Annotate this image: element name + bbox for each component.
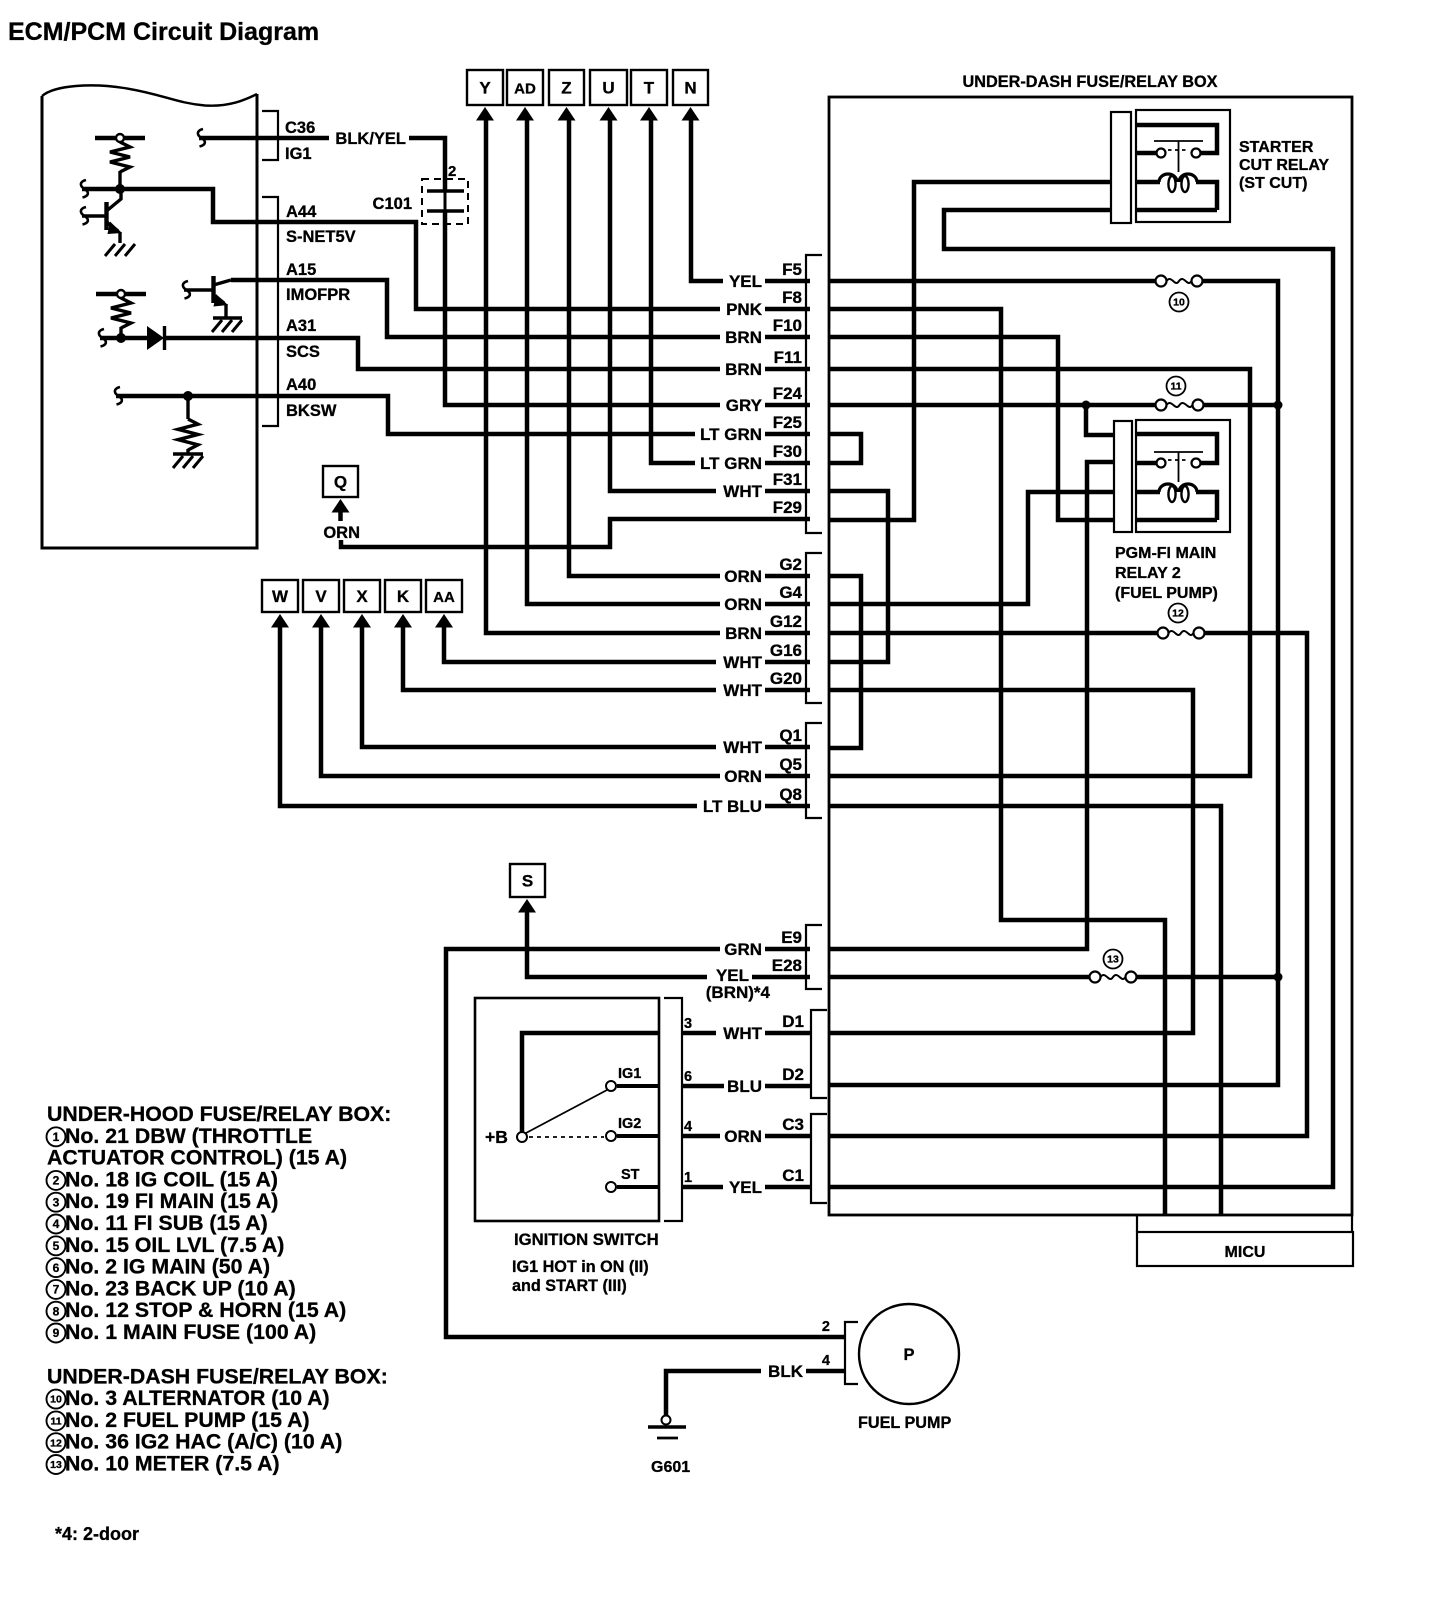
svg-text:D2: D2	[782, 1065, 804, 1084]
svg-text:GRY: GRY	[726, 396, 763, 415]
wire C36 / IG1 (BLK/YEL) to capacitor C101	[198, 129, 205, 147]
svg-text:and START (III): and START (III)	[512, 1277, 627, 1295]
list item 1	[47, 1127, 66, 1146]
svg-text:P: P	[903, 1346, 914, 1364]
under-dash fuse/relay box outline	[829, 97, 1352, 1215]
svg-text:6: 6	[53, 1261, 60, 1275]
wire ignition pin 4 (ORN) to C3	[682, 1134, 811, 1139]
svg-text:12: 12	[1172, 608, 1184, 620]
svg-text:+B: +B	[485, 1127, 508, 1147]
wire A40 / BKSW: to pin A40 then to F25 (LT GRN)	[115, 387, 122, 405]
wire X to Q1 (WHT)	[362, 625, 810, 747]
wire fuse 11 to junction	[1204, 403, 1279, 408]
svg-text:F11: F11	[774, 348, 802, 367]
connector box Y	[467, 70, 503, 105]
fuse 11	[1156, 400, 1167, 411]
svg-text:1: 1	[53, 1130, 60, 1144]
wire AA to G16 (WHT)	[444, 625, 810, 662]
list item 13	[47, 1455, 66, 1474]
junction dot F24/relay2	[1082, 401, 1091, 410]
wire E9 (GRN) to fuel pump pin 2	[446, 949, 845, 1337]
ground (under transistor Q-b)	[213, 316, 242, 319]
svg-text:FUEL PUMP: FUEL PUMP	[858, 1414, 951, 1432]
list item 10	[47, 1390, 66, 1409]
wire F11 to Q5	[829, 369, 1250, 776]
svg-text:ECM/PCM Circuit Diagram: ECM/PCM Circuit Diagram	[8, 18, 319, 46]
svg-text:10: 10	[50, 1394, 62, 1406]
svg-text:WHT: WHT	[723, 653, 762, 672]
wire colour label YEL (BRN)*4 (E28)	[707, 967, 752, 984]
arrow into AD	[516, 107, 534, 121]
wire colour label ORN (C3)	[720, 1128, 765, 1145]
switch wiper (to IG1)	[526, 1090, 607, 1133]
wire colour label LT BLU (Q8)	[697, 798, 765, 815]
fuse 13	[1090, 972, 1101, 983]
svg-text:F29: F29	[773, 498, 802, 517]
list item 4	[47, 1215, 66, 1234]
connector bracket G (G2..G20)	[806, 553, 822, 703]
wire BLK fuel pump pin 4 to G601	[666, 1371, 845, 1416]
wire colour label YEL (F5)	[723, 273, 765, 290]
svg-text:No. 15 OIL LVL (7.5 A): No. 15 OIL LVL (7.5 A)	[65, 1233, 284, 1257]
node bar with terminal circle (top pull-up)	[95, 136, 145, 141]
svg-text:(ST CUT): (ST CUT)	[1239, 175, 1307, 192]
connector bracket E (E9/E28)	[806, 925, 822, 989]
fuel pump connector bracket	[845, 1322, 858, 1384]
starter relay coil	[1159, 174, 1177, 182]
MICU box	[1136, 1216, 1138, 1232]
ignition switch +B feed wire	[522, 1033, 659, 1134]
wire colour label WHT (D1)	[716, 1025, 765, 1042]
svg-text:1: 1	[684, 1170, 692, 1186]
svg-text:LT GRN: LT GRN	[700, 425, 762, 444]
svg-text:11: 11	[50, 1416, 61, 1428]
wire G12 to fuse 12	[829, 631, 1158, 636]
svg-text:F24: F24	[773, 384, 803, 403]
svg-text:GRN: GRN	[724, 940, 762, 959]
wire N to F5 (YEL)	[691, 118, 810, 281]
svg-text:F25: F25	[773, 413, 802, 432]
PGM-FI main relay 2 box	[1136, 420, 1230, 532]
wire G4 to relay 2 pin 3	[829, 492, 1114, 604]
arrow into U	[600, 107, 618, 121]
svg-text:S-NET5V: S-NET5V	[286, 228, 356, 246]
svg-text:ACTUATOR CONTROL) (15 A): ACTUATOR CONTROL) (15 A)	[47, 1146, 347, 1170]
svg-text:BRN: BRN	[725, 624, 762, 643]
svg-text:ST: ST	[621, 1167, 640, 1183]
arrow into N	[682, 107, 700, 121]
svg-text:F8: F8	[782, 288, 802, 307]
connector box U	[590, 70, 627, 105]
svg-text:ORN: ORN	[724, 1127, 762, 1146]
wire colour label LT GRN (F25)	[695, 426, 765, 443]
svg-text:WHT: WHT	[723, 738, 762, 757]
wire colour label WHT (Q1)	[716, 739, 765, 756]
wire fuse 13 to junction	[1137, 975, 1279, 980]
svg-text:Q8: Q8	[779, 785, 802, 804]
resistor (lower, inside ECM)	[186, 396, 189, 419]
wire A31 / SCS: through diode to pin A31 then to F11 (BRN)	[99, 329, 106, 347]
svg-text:F10: F10	[773, 316, 802, 335]
svg-text:No. 11 FI SUB (15 A): No. 11 FI SUB (15 A)	[65, 1211, 268, 1235]
connector box AA	[426, 580, 462, 612]
svg-text:9: 9	[53, 1326, 60, 1340]
connector bracket C (C3/C1)	[811, 1114, 827, 1203]
svg-text:A31: A31	[286, 317, 316, 335]
wire colour label YEL (C1)	[723, 1179, 765, 1196]
svg-text:Q: Q	[334, 473, 347, 492]
ground (under transistor Q-a)	[105, 244, 115, 256]
node junction (A31 net)	[116, 333, 126, 343]
svg-text:UNDER-DASH FUSE/RELAY BOX: UNDER-DASH FUSE/RELAY BOX	[962, 73, 1217, 91]
svg-text:C3: C3	[782, 1115, 804, 1134]
list item 11	[47, 1411, 66, 1430]
starter relay armature bar	[1154, 140, 1203, 142]
wire F29 to starter cut relay pin 1	[829, 182, 1111, 520]
arrow into Q	[332, 499, 350, 513]
IG1 terminal circle	[606, 1081, 616, 1091]
wire F10 to relay 2 pin 4	[829, 337, 1114, 520]
wire Q to F29 (ORN)	[341, 519, 810, 547]
svg-text:*4: 2-door: *4: 2-door	[55, 1524, 139, 1544]
svg-text:A15: A15	[286, 261, 316, 279]
list item 7	[47, 1280, 66, 1299]
svg-text:A40: A40	[286, 376, 316, 394]
wire colour label GRY (F24)	[720, 397, 765, 414]
relay 2 internal contact circuit	[1137, 434, 1217, 463]
IG2 terminal circle	[606, 1131, 616, 1141]
svg-text:13: 13	[50, 1459, 62, 1471]
ground G601	[662, 1416, 671, 1425]
svg-text:MICU: MICU	[1225, 1244, 1266, 1261]
circled 10	[1170, 293, 1189, 312]
svg-text:No. 21 DBW (THROTTLE: No. 21 DBW (THROTTLE	[65, 1124, 312, 1148]
wire colour label ORN (G2)	[720, 568, 765, 585]
svg-text:3: 3	[53, 1195, 60, 1209]
svg-text:AA: AA	[433, 589, 455, 606]
resistor (middle, inside ECM)	[111, 298, 131, 328]
arrow into T	[640, 107, 658, 121]
wire colour label BRN (F10)	[720, 329, 765, 346]
list item 2	[47, 1171, 66, 1190]
node junction (A44 net)	[115, 184, 125, 194]
wire F24 junction to relay 2 pin 1	[1086, 405, 1114, 435]
svg-text:BLK/YEL: BLK/YEL	[335, 130, 406, 148]
wire A15 / IMOFPR: collector to pin A15 then to F10 (BRN)	[231, 280, 810, 337]
circled 11	[1167, 377, 1186, 396]
svg-text:BRN: BRN	[725, 360, 762, 379]
arrow into Z	[558, 107, 576, 121]
arrow into Y	[476, 107, 494, 121]
svg-text:WHT: WHT	[723, 482, 762, 501]
list item 3	[47, 1193, 66, 1212]
wire G2 to Q1	[829, 576, 861, 748]
wire jumper F25 to F30	[829, 434, 861, 463]
connector box Q	[323, 466, 358, 497]
ST terminal circle	[606, 1182, 616, 1192]
wire colour label PNK (F8)	[720, 301, 765, 318]
connector box S	[510, 864, 545, 897]
svg-text:3: 3	[684, 1016, 692, 1032]
wire colour label WHT (G20)	[716, 682, 765, 699]
svg-text:E28: E28	[772, 956, 802, 975]
wire ignition pin 6 (BLU) to D2	[682, 1084, 811, 1089]
svg-text:D1: D1	[782, 1012, 804, 1031]
svg-text:U: U	[602, 79, 614, 98]
svg-text:WHT: WHT	[723, 1024, 762, 1043]
wire A44 / S-NET5V: ECM internal to pin A44 then to F8 (PNK)	[81, 180, 88, 198]
wire ignition pin 3 (WHT) to D1	[682, 1031, 811, 1036]
svg-text:W: W	[272, 587, 289, 606]
svg-text:ORN: ORN	[323, 524, 360, 542]
relay 2 contact circle right	[1192, 459, 1201, 468]
wire Z to G2 (ORN)	[569, 118, 810, 576]
svg-text:6: 6	[684, 1069, 692, 1085]
wire ignition pin 1 (YEL) to C1	[682, 1185, 811, 1190]
starter cut relay connector bracket	[1111, 112, 1131, 223]
svg-text:No. 2 FUEL PUMP (15 A): No. 2 FUEL PUMP (15 A)	[65, 1408, 310, 1432]
svg-text:4: 4	[822, 1353, 830, 1369]
arrow into S	[518, 899, 536, 913]
svg-text:RELAY 2: RELAY 2	[1115, 565, 1181, 582]
starter cut relay box	[1136, 110, 1230, 222]
svg-text:YEL: YEL	[729, 1178, 762, 1197]
relay 2 coil	[1159, 484, 1177, 492]
connector box V	[303, 580, 339, 612]
list item 8	[47, 1302, 66, 1321]
svg-text:UNDER-HOOD FUSE/RELAY BOX:: UNDER-HOOD FUSE/RELAY BOX:	[47, 1102, 391, 1126]
wire E9 to relay 2 pin 2	[829, 462, 1114, 949]
wire T to F30 (LT GRN)	[651, 118, 810, 463]
svg-text:12: 12	[50, 1437, 62, 1449]
wire C101 to F24 (GRY)	[444, 191, 447, 211]
transistor Q-a (inside ECM, top)	[81, 207, 88, 225]
ignition switch connector bracket	[664, 998, 682, 1221]
relay 2 armature bar	[1154, 451, 1203, 453]
svg-text:PNK: PNK	[726, 300, 763, 319]
node bar with terminal circle (middle pull-up)	[96, 292, 146, 297]
label BLK/YEL	[329, 130, 409, 147]
arrow into V	[312, 614, 330, 628]
circled 12	[1169, 604, 1188, 623]
switch dashed wiper (to IG2)	[529, 1136, 604, 1138]
wire G20 to D1	[829, 690, 1193, 1033]
svg-text:LT BLU: LT BLU	[703, 797, 762, 816]
resistor (top, inside ECM)	[110, 142, 130, 172]
relay 2 coil legs and return	[1137, 490, 1160, 495]
svg-text:BRN: BRN	[725, 328, 762, 347]
svg-text:WHT: WHT	[723, 681, 762, 700]
svg-text:G20: G20	[770, 669, 802, 688]
svg-text:2: 2	[822, 1319, 830, 1335]
svg-text:IG1 HOT in ON (II): IG1 HOT in ON (II)	[512, 1258, 649, 1276]
connector bracket D (D1/D2)	[811, 1010, 827, 1098]
wire F24 to fuse 11	[829, 403, 1156, 408]
capacitor C101	[427, 189, 464, 193]
svg-text:AD: AD	[514, 81, 536, 98]
svg-text:UNDER-DASH FUSE/RELAY BOX:: UNDER-DASH FUSE/RELAY BOX:	[47, 1364, 388, 1388]
svg-text:SCS: SCS	[286, 343, 320, 361]
relay 2 contact circle left	[1157, 459, 1166, 468]
wire starter cut relay pin 2 to C1	[829, 210, 1333, 1187]
svg-text:BKSW: BKSW	[286, 402, 337, 420]
fuel pump motor circle	[859, 1304, 959, 1404]
svg-text:BLU: BLU	[727, 1077, 762, 1096]
svg-text:No. 18 IG COIL (15 A): No. 18 IG COIL (15 A)	[65, 1167, 278, 1191]
wire F5 to fuse 10	[829, 279, 1156, 284]
svg-text:YEL: YEL	[729, 272, 762, 291]
connector box T	[631, 70, 667, 105]
svg-text:No. 36 IG2 HAC (A/C) (10 A): No. 36 IG2 HAC (A/C) (10 A)	[65, 1430, 342, 1454]
connector box N	[673, 70, 708, 105]
starter relay contact circle right	[1192, 149, 1201, 158]
svg-text:2: 2	[53, 1174, 60, 1188]
fuse 12	[1158, 628, 1169, 639]
svg-text:ORN: ORN	[724, 567, 762, 586]
svg-text:CUT RELAY: CUT RELAY	[1239, 157, 1329, 174]
starter cut relay internal contact circuit	[1137, 125, 1217, 153]
connector bracket F (F5..F29)	[806, 255, 822, 533]
wire colour label WHT (F31)	[716, 483, 765, 500]
svg-text:8: 8	[53, 1304, 60, 1318]
svg-text:No. 12 STOP & HORN (15 A): No. 12 STOP & HORN (15 A)	[65, 1298, 346, 1322]
svg-text:V: V	[315, 587, 327, 606]
svg-text:G4: G4	[779, 583, 802, 602]
wire E28 to fuse 13	[829, 975, 1090, 980]
svg-text:2: 2	[448, 163, 456, 180]
svg-text:F31: F31	[773, 470, 802, 489]
arrow into AA	[435, 614, 453, 628]
list item 12	[47, 1433, 66, 1452]
svg-text:IG1: IG1	[618, 1066, 641, 1082]
node junction (A40 net)	[183, 391, 193, 401]
connector box AD	[507, 70, 543, 105]
fuse 10	[1156, 276, 1167, 287]
svg-text:ORN: ORN	[724, 767, 762, 786]
svg-text:C1: C1	[782, 1166, 804, 1185]
svg-text:No. 2 IG MAIN (50 A): No. 2 IG MAIN (50 A)	[65, 1255, 270, 1279]
wire colour label WHT (G16)	[716, 654, 765, 671]
wire colour label BRN (F11)	[720, 361, 765, 378]
svg-text:Q1: Q1	[779, 726, 802, 745]
svg-text:IGNITION SWITCH: IGNITION SWITCH	[514, 1230, 659, 1249]
PGM-FI main relay 2 connector bracket	[1114, 421, 1132, 532]
ignition switch box	[475, 998, 659, 1221]
+B terminal circle	[517, 1132, 527, 1142]
wire W to Q8 (LT BLU)	[280, 625, 810, 806]
wire colour label GRN (E9)	[720, 941, 765, 958]
svg-text:10: 10	[1173, 297, 1185, 309]
svg-text:T: T	[644, 79, 655, 98]
svg-text:G12: G12	[770, 612, 802, 631]
wire colour label ORN (G4)	[720, 596, 765, 613]
wire colour label BRN (G12)	[720, 625, 765, 642]
svg-text:(BRN)*4: (BRN)*4	[706, 983, 771, 1002]
wire S to E28 (YEL)	[527, 910, 810, 977]
wire AD to G4 (ORN)	[527, 118, 810, 604]
svg-text:E9: E9	[781, 928, 802, 947]
svg-text:4: 4	[53, 1217, 60, 1231]
ECM/PCM module box (wavy top)	[42, 94, 257, 548]
arrow into W	[271, 614, 289, 628]
wire G16 to F31	[829, 491, 888, 662]
svg-text:S: S	[522, 872, 533, 891]
connector box X	[344, 580, 380, 612]
svg-text:IG2: IG2	[618, 1116, 641, 1132]
connector box W	[262, 580, 298, 612]
svg-text:5: 5	[53, 1239, 60, 1253]
svg-text:N: N	[684, 79, 696, 98]
svg-text:C101: C101	[373, 195, 412, 213]
wire colour label ORN (Q5)	[720, 768, 765, 785]
connector bracket C36/IG1	[262, 111, 278, 160]
svg-text:No. 1 MAIN FUSE (100 A): No. 1 MAIN FUSE (100 A)	[65, 1320, 316, 1344]
wire V to Q5 (ORN)	[321, 625, 810, 776]
wire K to G20 (WHT)	[403, 625, 810, 690]
svg-text:ORN: ORN	[724, 595, 762, 614]
svg-text:A44: A44	[286, 203, 317, 221]
wire colour label BLU (D2)	[724, 1078, 765, 1095]
svg-text:LT GRN: LT GRN	[700, 454, 762, 473]
wire fuse 12 to C3	[829, 633, 1307, 1136]
svg-text:Z: Z	[561, 79, 571, 98]
arrow into K	[394, 614, 412, 628]
svg-text:G16: G16	[770, 641, 802, 660]
list item 6	[47, 1258, 66, 1277]
list item 9	[47, 1324, 66, 1343]
svg-text:PGM-FI MAIN: PGM-FI MAIN	[1115, 545, 1216, 562]
svg-text:Q5: Q5	[779, 755, 802, 774]
connector box Z	[549, 70, 584, 105]
junction dot fuse13/fuse10 line	[1274, 973, 1283, 982]
connector bracket A-pins	[262, 197, 278, 426]
svg-text:X: X	[356, 587, 368, 606]
svg-text:(FUEL PUMP): (FUEL PUMP)	[1115, 585, 1218, 602]
svg-text:No. 10 METER (7.5 A): No. 10 METER (7.5 A)	[65, 1452, 280, 1476]
junction dot fuse10/fuse11	[1274, 401, 1283, 410]
svg-text:G601: G601	[651, 1459, 690, 1476]
ground (under lower resistor)	[173, 452, 203, 455]
svg-text:BLK: BLK	[768, 1362, 804, 1381]
wire F8 to MICU	[829, 309, 1165, 1215]
wire Y to G12 (BRN)	[486, 118, 810, 633]
wire fuse 10 to D2 (via right side)	[829, 281, 1278, 1085]
svg-text:C36: C36	[285, 119, 315, 137]
svg-text:7: 7	[53, 1283, 60, 1297]
svg-text:13: 13	[1107, 954, 1119, 966]
label BLK	[761, 1363, 806, 1380]
wire Q8 to MICU	[829, 806, 1221, 1215]
svg-text:IMOFPR: IMOFPR	[286, 286, 350, 304]
svg-text:11: 11	[1170, 381, 1181, 393]
svg-text:IG1: IG1	[285, 145, 312, 163]
starter relay contact circle left	[1157, 149, 1166, 158]
list item 5	[47, 1236, 66, 1255]
ignition switch contact stubs	[617, 1084, 659, 1088]
starter relay coil legs and return	[1137, 180, 1160, 185]
svg-text:No. 3 ALTERNATOR (10 A): No. 3 ALTERNATOR (10 A)	[65, 1386, 330, 1410]
svg-text:G2: G2	[779, 555, 802, 574]
diode (inside ECM)	[147, 326, 164, 350]
transistor Q-b (IMOFPR driver)	[183, 281, 190, 299]
circled 13	[1104, 950, 1123, 969]
connector box K	[385, 580, 421, 612]
wire colour label LT GRN (F30)	[695, 455, 765, 472]
svg-text:F5: F5	[782, 260, 802, 279]
svg-text:F30: F30	[773, 442, 802, 461]
wire U to F31 (WHT)	[610, 118, 810, 491]
svg-text:STARTER: STARTER	[1239, 139, 1314, 156]
